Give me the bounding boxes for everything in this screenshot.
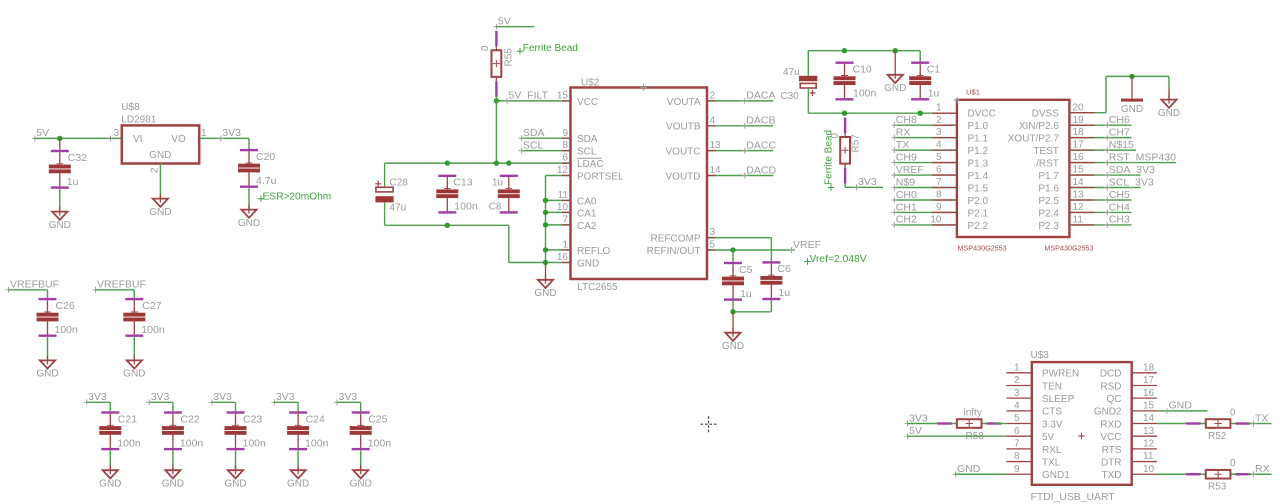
svg-text:9: 9 <box>936 202 942 213</box>
net label CH8 <box>891 114 917 128</box>
U$2 pin 4 VOUTB <box>666 115 715 132</box>
svg-text:DACA: DACA <box>746 90 775 102</box>
svg-text:9: 9 <box>1014 464 1020 475</box>
svg-text:TEST: TEST <box>1033 146 1059 157</box>
svg-text:5V: 5V <box>909 425 922 437</box>
svg-text:SDA: SDA <box>523 127 545 139</box>
svg-text:CH7: CH7 <box>1109 126 1130 138</box>
svg-text:3: 3 <box>710 227 716 238</box>
net label 3V3 at C23 <box>209 391 232 405</box>
junction C13 top <box>445 160 450 165</box>
U$1 pin 5 P1.3 <box>936 152 989 169</box>
svg-text:TX: TX <box>896 139 909 151</box>
wire cap bottom rail <box>385 224 509 226</box>
net label VREFBUF second <box>93 279 147 293</box>
svg-text:N$9: N$9 <box>896 176 915 188</box>
name R58 <box>966 431 985 442</box>
svg-text:MSP430G2553: MSP430G2553 <box>958 244 1007 253</box>
svg-text:13: 13 <box>1143 426 1155 437</box>
wire GND2 pin 15 <box>1157 410 1208 412</box>
svg-text:GND: GND <box>1121 104 1143 115</box>
svg-text:ESR>20mOhm: ESR>20mOhm <box>263 192 332 203</box>
ground GND below C22 <box>162 465 184 489</box>
svg-text:SCL: SCL <box>523 139 544 151</box>
net label VREF at U$2 <box>789 239 822 253</box>
svg-text:VOUTD: VOUTD <box>666 171 701 182</box>
svg-text:R53: R53 <box>1208 482 1227 493</box>
svg-text:CA2: CA2 <box>577 221 597 232</box>
U$3 pin 13 VCC <box>1100 426 1157 443</box>
U$1 pin 16 /RST <box>1036 152 1084 169</box>
svg-text:1: 1 <box>1014 362 1020 373</box>
svg-text:P1.2: P1.2 <box>968 146 989 157</box>
capacitor C22 <box>162 411 204 450</box>
svg-text:DVSS: DVSS <box>1032 109 1060 120</box>
svg-text:R52: R52 <box>1208 431 1227 442</box>
svg-text:VREFBUF: VREFBUF <box>97 279 146 291</box>
cursor crosshair <box>701 416 717 432</box>
wire RX to U$1 <box>894 137 957 139</box>
net label DACB <box>742 115 776 129</box>
svg-text:14: 14 <box>710 165 722 176</box>
svg-text:P2.5: P2.5 <box>1038 196 1059 207</box>
svg-text:5: 5 <box>710 240 716 251</box>
svg-text:0: 0 <box>480 45 491 51</box>
svg-text:DACD: DACD <box>746 164 776 176</box>
ground GND far right <box>1158 95 1180 119</box>
value 0 of R52 <box>1230 407 1236 418</box>
net label CH6 <box>1104 114 1130 128</box>
svg-text:GND: GND <box>884 83 906 94</box>
svg-text:SCL: SCL <box>577 147 597 158</box>
svg-text:GND: GND <box>1158 108 1180 119</box>
U$3 pin 6 5V <box>1006 426 1054 443</box>
U$2 pin 7 CA2 <box>562 215 596 232</box>
svg-text:100n: 100n <box>305 437 329 449</box>
U$3 pin 18 DCD <box>1100 362 1157 379</box>
svg-text:VI: VI <box>133 134 142 145</box>
junction at 5V / C32 <box>57 136 62 150</box>
junction ground bar stem <box>1129 74 1134 79</box>
svg-text:17: 17 <box>1143 375 1155 386</box>
junction R55 line on rail <box>494 160 499 165</box>
svg-text:VOUTC: VOUTC <box>666 147 701 158</box>
wire VCC net 5V_FILT <box>496 100 570 102</box>
svg-text:13: 13 <box>710 140 722 151</box>
wire 3V3 to C21 <box>87 402 111 411</box>
wire C21 to ground <box>109 451 111 471</box>
svg-text:1u: 1u <box>740 288 752 300</box>
wire top rail C30 C10 C1 <box>808 51 920 76</box>
wire CH0 to U$1 <box>894 199 957 201</box>
DAC U$2 LTC2655 <box>571 77 708 292</box>
ground GND below C5 C6 <box>722 328 744 352</box>
svg-text:2: 2 <box>936 115 942 126</box>
ground GND below C23 <box>224 465 246 489</box>
svg-text:7: 7 <box>936 177 942 188</box>
svg-text:XOUT/P2.7: XOUT/P2.7 <box>1008 134 1060 145</box>
wire SCL <box>521 150 570 152</box>
wire 3V3 to C22 <box>149 402 173 411</box>
name R52 <box>1208 431 1227 442</box>
svg-text:DACB: DACB <box>746 115 775 127</box>
wire SCL_3V3 from U$1 <box>1069 187 1140 189</box>
wire VREFBUF to C27 <box>96 290 135 298</box>
ground GND below C26 <box>36 355 58 379</box>
wire U$8 pin2 to ground <box>159 164 161 200</box>
pin 1 of U$8 <box>201 128 207 139</box>
svg-text:3V3: 3V3 <box>339 391 358 403</box>
wire bottom rail to DVCC pin 1 <box>808 112 957 114</box>
svg-text:P1.4: P1.4 <box>968 171 989 182</box>
svg-text:3V3: 3V3 <box>88 391 107 403</box>
svg-text:C30: C30 <box>780 91 799 102</box>
svg-text:LDAC: LDAC <box>577 159 604 170</box>
svg-text:5V: 5V <box>1042 432 1055 443</box>
capacitor C8 <box>489 175 520 214</box>
wire CH9 to U$1 <box>894 162 957 164</box>
U$1 pin 10 P2.2 <box>930 215 988 232</box>
wire 3V3 to R58 <box>908 423 945 425</box>
svg-text:CH4: CH4 <box>1109 201 1130 213</box>
note Vref=2.048V <box>804 254 866 265</box>
svg-text:100n: 100n <box>368 437 392 449</box>
svg-text:C21: C21 <box>118 413 137 425</box>
svg-text:2: 2 <box>150 167 161 173</box>
svg-text:GND1: GND1 <box>1042 470 1070 481</box>
svg-text:3.3V: 3.3V <box>1042 419 1063 430</box>
svg-text:8: 8 <box>1014 451 1020 462</box>
svg-text:C10: C10 <box>853 64 872 76</box>
svg-text:GND: GND <box>350 479 372 490</box>
svg-text:PWREN: PWREN <box>1042 369 1079 380</box>
value 0 of R53 <box>1230 458 1236 469</box>
junction R55 / VCC wire <box>494 98 499 103</box>
wire R53 to RX <box>1248 473 1272 475</box>
wire N$9 to U$1 <box>894 187 957 189</box>
svg-text:10: 10 <box>930 215 942 226</box>
junction CA1 <box>543 210 548 215</box>
wire 5V stub right <box>496 26 534 28</box>
svg-text:N$15: N$15 <box>1109 139 1134 151</box>
svg-text:VOUTB: VOUTB <box>666 122 701 133</box>
svg-text:100n: 100n <box>180 437 204 449</box>
svg-text:R55: R55 <box>504 48 515 67</box>
U$1 pin 9 P2.1 <box>936 202 989 219</box>
svg-text:/RST: /RST <box>1036 158 1059 169</box>
svg-text:Ferrite Bead: Ferrite Bead <box>523 43 578 54</box>
svg-text:2: 2 <box>1014 375 1020 386</box>
net label CH5 <box>1104 189 1130 203</box>
svg-text:7: 7 <box>1014 438 1020 449</box>
svg-text:TEN: TEN <box>1042 381 1062 392</box>
pin 2 of U$8 <box>150 167 161 173</box>
net label 5V <box>32 127 49 141</box>
svg-text:GND: GND <box>224 479 246 490</box>
U$2 pin 1 REFLO <box>562 240 610 257</box>
U$2 pin 13 VOUTC <box>666 140 722 157</box>
svg-text:20: 20 <box>1073 102 1085 113</box>
svg-text:C24: C24 <box>306 413 325 425</box>
svg-text:C27: C27 <box>142 300 161 312</box>
wire C8 bottom to U$2 GND <box>509 225 546 262</box>
wire DVSS to ground rail <box>1069 76 1169 112</box>
junction C13 bottom <box>445 223 450 228</box>
svg-text:RX: RX <box>896 126 911 138</box>
svg-text:RST_MSP430: RST_MSP430 <box>1109 151 1176 163</box>
name R55 <box>504 48 515 67</box>
wire cap top rail to LDAC <box>385 162 571 164</box>
pin 3 of U$8 <box>114 128 120 139</box>
ground GND below C20 <box>238 205 260 229</box>
resistor R55 <box>492 31 502 97</box>
U$1 pin 6 P1.4 <box>936 165 989 182</box>
svg-text:0: 0 <box>1230 407 1236 418</box>
U$1 pin 17 TEST <box>1033 140 1084 157</box>
svg-text:100n: 100n <box>853 88 877 100</box>
wire DACC <box>707 150 773 152</box>
value 0 of R55 <box>480 45 491 51</box>
wire CH1 to U$1 <box>894 211 957 213</box>
net label RX <box>891 126 910 140</box>
svg-text:C6: C6 <box>777 263 791 275</box>
net label 3V3 at regulator output <box>218 127 241 141</box>
svg-text:P1.1: P1.1 <box>968 134 989 145</box>
svg-text:1: 1 <box>936 102 942 113</box>
net label N$9 <box>891 176 915 190</box>
ground GND below C21 <box>99 465 121 489</box>
svg-text:100n: 100n <box>454 201 478 213</box>
wire DACA <box>707 100 773 102</box>
U$3 pin 5 3.3V <box>1006 413 1063 430</box>
svg-text:3V3: 3V3 <box>213 391 232 403</box>
U$2 left pin bus wire <box>546 176 571 263</box>
svg-text:P1.6: P1.6 <box>1038 183 1059 194</box>
net label DACD <box>742 164 777 178</box>
wire CH7 from U$1 <box>1069 137 1131 139</box>
U$1 pin 14 P1.6 <box>1038 177 1084 194</box>
wire C5 top stub <box>732 250 734 262</box>
svg-text:REFLO: REFLO <box>577 246 611 257</box>
svg-text:CH2: CH2 <box>896 214 917 226</box>
svg-text:1u: 1u <box>778 287 790 299</box>
svg-text:LTC2655: LTC2655 <box>577 282 618 293</box>
net label 3V3 at R57 <box>854 176 877 190</box>
net label 3V3 at C21 <box>84 391 107 405</box>
svg-text:CA1: CA1 <box>577 208 597 219</box>
svg-text:FTDI_USB_UART: FTDI_USB_UART <box>1031 492 1116 503</box>
svg-text:C23: C23 <box>243 413 262 425</box>
net label GND at U$3 <box>953 463 981 477</box>
wire N$15 from U$1 <box>1069 149 1136 151</box>
svg-text:C20: C20 <box>256 151 275 163</box>
svg-text:RSD: RSD <box>1100 381 1121 392</box>
svg-text:47u: 47u <box>783 67 800 78</box>
svg-text:11: 11 <box>1143 451 1154 462</box>
wire R55 junction down to cap rail <box>495 101 497 163</box>
svg-text:3: 3 <box>1014 388 1020 399</box>
wire C24 to ground <box>297 451 299 471</box>
net label RST_MSP430 <box>1104 151 1176 165</box>
svg-text:100n: 100n <box>55 324 79 336</box>
svg-text:12: 12 <box>1143 438 1155 449</box>
svg-text:3V3: 3V3 <box>222 127 241 139</box>
junction C10 top <box>842 48 847 53</box>
wire RST_MSP430 from U$1 <box>1069 162 1176 164</box>
svg-text:RX: RX <box>1255 463 1270 475</box>
wire R57 to 3V3 <box>845 184 883 188</box>
U$3 pin 2 TEN <box>1006 375 1062 392</box>
wire TXD to R53 <box>1157 473 1189 475</box>
wire CH8 to U$1 <box>894 124 957 126</box>
ground GND below C24 <box>287 465 309 489</box>
voltage regulator U$8 LD2981 <box>121 102 199 163</box>
U$1 pin 15 P1.7 <box>1038 165 1084 182</box>
svg-text:U$8: U$8 <box>121 102 140 113</box>
note ESR>20mOhm <box>258 192 331 203</box>
wire VO to 3V3 / C20 <box>199 138 249 149</box>
U$1 pin 7 P1.5 <box>936 177 989 194</box>
svg-text:1: 1 <box>562 240 568 251</box>
wire 3V3 to C24 <box>274 402 298 411</box>
capacitor C25 <box>350 411 392 450</box>
U$3 pin 15 GND2 <box>1094 400 1157 417</box>
net label TX <box>891 139 909 153</box>
net label DACC <box>742 139 777 153</box>
svg-text:P2.4: P2.4 <box>1038 208 1059 219</box>
net label 5V_FILT <box>504 90 549 104</box>
U$1 pin 3 P1.1 <box>936 127 989 144</box>
svg-text:GND: GND <box>957 463 981 475</box>
svg-text:XIN/P2.6: XIN/P2.6 <box>1019 121 1059 132</box>
wire CH2 to U$1 <box>894 224 957 226</box>
svg-text:3V3: 3V3 <box>276 391 295 403</box>
svg-text:GND: GND <box>577 258 599 269</box>
wire to ground below C5 <box>732 312 734 333</box>
svg-text:0: 0 <box>1230 458 1236 469</box>
svg-text:GND2: GND2 <box>1094 407 1122 418</box>
svg-text:P1.3: P1.3 <box>968 158 989 169</box>
U$1 pin 2 P1.0 <box>936 115 989 132</box>
svg-text:100n: 100n <box>243 437 267 449</box>
wire VREF to U$1 <box>894 174 957 176</box>
junction ground stem top rail <box>893 48 898 53</box>
capacitor C1 <box>909 62 940 101</box>
svg-text:15: 15 <box>557 91 569 102</box>
U$1 pin 18 XOUT/P2.7 <box>1008 127 1084 144</box>
ground GND below C27 <box>123 355 145 379</box>
svg-text:GND: GND <box>123 369 145 380</box>
junction C10 bottom R57 <box>842 111 847 116</box>
U$3 pin 14 RXD <box>1100 413 1157 430</box>
svg-text:infty: infty <box>964 407 982 418</box>
net label SCL_3V3 <box>1104 176 1154 190</box>
ground GND below C32 <box>49 207 71 231</box>
svg-text:TXL: TXL <box>1042 457 1061 468</box>
svg-text:LD2981: LD2981 <box>121 115 156 126</box>
svg-text:8: 8 <box>562 140 568 151</box>
junction REFLO <box>543 247 548 252</box>
svg-text:19: 19 <box>1073 115 1085 126</box>
svg-text:C32: C32 <box>68 152 87 164</box>
svg-text:R57: R57 <box>851 134 862 153</box>
svg-text:3: 3 <box>936 127 942 138</box>
U$2 pin 14 VOUTD <box>666 165 722 182</box>
svg-text:P2.3: P2.3 <box>1038 221 1059 232</box>
svg-text:VCC: VCC <box>577 97 598 108</box>
svg-text:4.7u: 4.7u <box>256 175 277 187</box>
svg-text:CTS: CTS <box>1042 407 1062 418</box>
svg-text:REFIN/OUT: REFIN/OUT <box>647 246 701 257</box>
svg-text:6: 6 <box>562 153 568 164</box>
svg-text:P2.2: P2.2 <box>968 221 989 232</box>
capacitor C5 <box>722 262 753 301</box>
wire C23 to ground <box>235 451 237 471</box>
net label SDA_3V3 <box>1104 164 1155 178</box>
net label 3V3 at C22 <box>146 391 169 405</box>
U$1 pin 19 XIN/P2.6 <box>1019 115 1084 132</box>
svg-text:10: 10 <box>557 202 569 213</box>
U$2 pin 2 VOUTA <box>667 91 716 108</box>
svg-text:4: 4 <box>710 115 716 126</box>
svg-text:VO: VO <box>171 134 186 145</box>
svg-text:C22: C22 <box>180 413 199 425</box>
net label TX <box>1251 412 1269 426</box>
U$1 pin 20 DVSS <box>1032 102 1084 119</box>
svg-text:GND: GND <box>149 150 171 161</box>
svg-text:47u: 47u <box>390 202 407 213</box>
capacitor C13 <box>436 175 478 214</box>
svg-text:3V3: 3V3 <box>151 391 170 403</box>
junction C1 bottom <box>918 111 923 116</box>
svg-text:GND: GND <box>722 341 744 352</box>
net label SCL <box>518 139 543 153</box>
ground GND below U$8 <box>149 194 171 218</box>
svg-text:16: 16 <box>1143 388 1155 399</box>
svg-text:CH1: CH1 <box>896 201 917 213</box>
value 0 of R57 <box>830 133 841 139</box>
svg-text:16: 16 <box>1073 152 1085 163</box>
resistor R53 <box>1186 470 1250 479</box>
svg-text:100n: 100n <box>117 437 141 449</box>
net label 3V3 at C25 <box>334 391 357 405</box>
U$2 pin 12 PORTSEL <box>557 165 624 182</box>
svg-text:SDA: SDA <box>577 134 598 145</box>
U$2 pin 5 REFIN/OUT <box>647 240 716 257</box>
svg-text:2: 2 <box>710 91 716 102</box>
microcontroller U$1 MSP430G2553 <box>954 87 1094 252</box>
svg-text:12: 12 <box>557 165 569 176</box>
net label N$15 <box>1104 139 1134 153</box>
value infty of R58 <box>964 407 982 418</box>
wire C25 to ground <box>360 451 362 471</box>
wire C26 to ground <box>47 337 49 361</box>
svg-text:GND: GND <box>287 479 309 490</box>
svg-text:SLEEP: SLEEP <box>1042 394 1075 405</box>
svg-text:P1.5: P1.5 <box>968 183 989 194</box>
svg-text:C13: C13 <box>453 177 472 189</box>
wire 3V3 to C25 <box>337 402 361 411</box>
wire REFIN/OUT VREF <box>707 249 795 251</box>
U$3 pin 3 SLEEP <box>1006 388 1074 405</box>
name R57 <box>851 134 862 153</box>
wire C22 to ground <box>172 451 174 471</box>
svg-text:12: 12 <box>1073 202 1085 213</box>
svg-text:18: 18 <box>1073 127 1085 138</box>
wire TX to U$1 <box>894 149 957 151</box>
svg-text:P2.0: P2.0 <box>968 196 989 207</box>
U$3 pin 12 RTS <box>1102 438 1157 455</box>
